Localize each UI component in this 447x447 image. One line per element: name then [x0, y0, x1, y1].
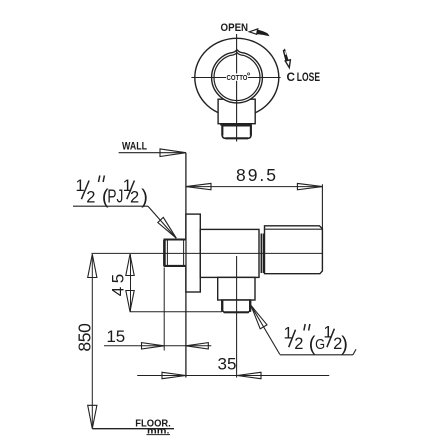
threaded inlet fitting: [164, 239, 186, 266]
wall leader line: [119, 152, 186, 154]
vertical centerline (top view): [236, 34, 238, 142]
extension line fitting left edge: [163, 268, 165, 351]
arrow 850 up: [88, 254, 97, 277]
label 1/2"(G1/2): [284, 324, 348, 356]
dim line 45: [130, 254, 132, 311]
svg-text:C: C: [287, 70, 296, 84]
handle outer circle (top view): [195, 38, 279, 116]
svg-text:COTTO: COTTO: [227, 73, 248, 82]
ring groove between body and handle: [260, 234, 262, 274]
wall leader arrow: [160, 149, 186, 157]
floor line: [92, 428, 174, 430]
leader G arrow: [251, 305, 267, 329]
wall flange: [186, 214, 200, 292]
CLOSE direction arrow: [283, 49, 289, 61]
label 1/2"(PJ1/2): [76, 177, 148, 208]
horizontal centerline (side view): [92, 252, 324, 254]
extension line 45 bottom: [130, 311, 222, 313]
leader G underline: [280, 354, 353, 356]
svg-text:OPEN: OPEN: [221, 22, 249, 34]
svg-text:15: 15: [106, 327, 125, 346]
dim line 850: [91, 254, 93, 428]
dim line 15: [104, 345, 211, 347]
svg-text:2: 2: [294, 335, 303, 353]
vertical centerline through outlet: [236, 256, 238, 378]
COTTO logo: [226, 73, 248, 80]
svg-text:35: 35: [218, 355, 237, 374]
knob notch: [231, 48, 243, 56]
handle knob inner ring: [214, 55, 260, 101]
leader PJ underline: [73, 205, 148, 207]
arrow 45 up: [126, 254, 134, 275]
leader PJ diagonal: [148, 206, 176, 238]
arrow 35 right: [237, 372, 261, 378]
svg-text:): ): [341, 334, 348, 356]
svg-text:PJ: PJ: [107, 185, 123, 206]
valve body rect (top view): [218, 99, 255, 124]
outlet upper box: [218, 277, 255, 300]
svg-text:2: 2: [86, 188, 95, 206]
svg-text:): ): [141, 186, 148, 208]
arrow 89.5 left: [186, 183, 211, 189]
leader G diagonal: [251, 305, 280, 354]
svg-text:89.5: 89.5: [236, 165, 276, 185]
valve body (side view): [200, 229, 259, 277]
outlet nut (top view): [222, 126, 251, 139]
horizontal centerline (top view): [191, 77, 280, 79]
arrow 15 left: [142, 343, 164, 349]
leader PJ arrow: [158, 217, 177, 238]
wall line: [185, 153, 187, 378]
handle knob outer ring: [212, 52, 263, 103]
arrow 15 right: [186, 343, 208, 349]
svg-text:1: 1: [76, 177, 85, 195]
svg-text:45: 45: [108, 274, 127, 297]
arrow 45 down: [126, 291, 134, 312]
arrow 35 left: [162, 372, 186, 378]
arrow 89.5 right: [297, 183, 322, 189]
svg-text:1: 1: [323, 324, 332, 342]
arrow 850 down: [88, 405, 97, 428]
svg-text:LOSE: LOSE: [297, 70, 320, 84]
handle block (side view): [265, 226, 323, 274]
OPEN direction arrow: [249, 29, 258, 34]
svg-text:WALL: WALL: [122, 141, 147, 153]
outlet nut top flange line (top view): [220, 124, 252, 126]
dim line 89.5: [186, 186, 323, 188]
extension line right of 89.5: [321, 184, 323, 229]
dim line 35: [137, 375, 329, 377]
svg-text:2: 2: [130, 188, 139, 206]
outlet threaded end: [222, 300, 251, 313]
svg-text:850: 850: [74, 323, 94, 352]
